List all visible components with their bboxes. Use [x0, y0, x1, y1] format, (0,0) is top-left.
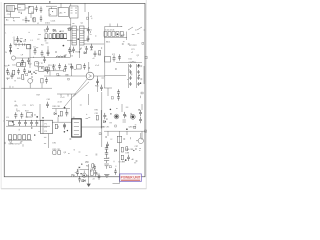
component mark z10_11 [116, 107, 118, 109]
component mark z6_8 [74, 68, 76, 70]
component mark z8_10 [31, 114, 33, 115]
wire under switches [8, 139, 32, 141]
svg-text:T2: T2 [41, 63, 43, 65]
component mark z4_8 [145, 56, 147, 58]
capacitor C504 [96, 79, 99, 85]
capacitor C701 [14, 112, 17, 118]
connector CN1 pins [8, 6, 12, 12]
wire bus y126 [6, 125, 50, 127]
component mark z3_7 [90, 31, 92, 33]
component body d9_1 [138, 64, 140, 66]
component mark z7_0 [131, 74, 133, 75]
svg-text:R91: R91 [95, 110, 99, 112]
switch S1 [9, 135, 12, 140]
component mark z13_1 [75, 176, 77, 178]
component mark z6_4 [68, 78, 70, 80]
svg-text:R2: R2 [24, 41, 26, 43]
component body d7_0 [133, 150, 134, 151]
filter box row1 [17, 63, 20, 67]
component body d4_3 [34, 134, 35, 135]
capacitor CB7 [94, 170, 97, 176]
svg-text:C24 C25: C24 C25 [129, 62, 137, 64]
svg-text:r9: r9 [97, 173, 99, 176]
diagonal wire stub [74, 82, 90, 97]
svg-text:D21: D21 [129, 59, 133, 61]
component mark z13_4 [77, 169, 79, 170]
relay RL1 corner [18, 5, 26, 11]
component mark z6_2 [71, 67, 73, 69]
resistor R310 [99, 51, 101, 55]
component body d6_4 [126, 128, 128, 130]
capacitor C220 [129, 64, 131, 68]
capacitor C705 [24, 120, 27, 126]
component body d8_1 [80, 173, 81, 174]
svg-text:R45: R45 [17, 78, 21, 80]
wire tick y88 [10, 84, 42, 88]
component mark z4_3 [122, 43, 124, 44]
wire y57 mid [30, 57, 70, 59]
transistor QB1 [82, 173, 86, 177]
mark small a [123, 120, 126, 122]
svg-text:R47: R47 [37, 94, 41, 96]
component body d3_1 [117, 33, 119, 35]
svg-text:R81 C81: R81 C81 [53, 106, 61, 108]
capacitor C232 [137, 76, 139, 80]
capacitor C304 [34, 48, 37, 54]
component mark z3_1 [98, 53, 100, 55]
component mark z4_7 [142, 43, 144, 45]
wire y40 stub [14, 37, 21, 45]
component mark z2_7 [46, 42, 49, 44]
component body d7_1 [125, 159, 127, 161]
component mark z1_0 [72, 23, 74, 25]
capacitor CB6 [76, 170, 79, 176]
wire x71 drop to U2 [71, 94, 73, 119]
capacitor C406 [45, 77, 48, 83]
component mark z3_8 [65, 54, 67, 56]
component mark z6_7 [66, 74, 68, 76]
varistor RV1 [9, 121, 14, 125]
component mark z3_2 [83, 32, 85, 33]
svg-text:F3: F3 [7, 117, 9, 119]
component mark z3_13 [64, 55, 66, 57]
transformer T1 primary [49, 9, 57, 17]
bridge BR2 dark [27, 45, 31, 49]
resistor RB1 [121, 147, 123, 152]
component mark z3_9 [79, 49, 81, 51]
component mark z10_9 [135, 124, 137, 126]
capacitor C704 [30, 120, 33, 126]
component body d5_3 [58, 115, 59, 116]
component mark z9_5 [80, 132, 82, 134]
capacitor C404 [46, 67, 49, 73]
page edge bottom [1, 188, 146, 190]
component mark z13_5 [82, 180, 84, 182]
component mark z7_7 [111, 97, 113, 99]
wire y75 to array [105, 75, 126, 77]
component mark z8_3 [26, 117, 28, 118]
diode D203 [112, 32, 115, 37]
switch S2 [13, 135, 16, 140]
component mark z2_11 [44, 29, 46, 30]
page background [0, 0, 149, 198]
svg-text:C91: C91 [95, 113, 99, 115]
capacitor C503 [83, 63, 86, 69]
wire T3 right taps [84, 29, 88, 41]
component mark z12_3 [108, 157, 110, 159]
ic U4 [39, 67, 45, 71]
component body d11_1 [52, 11, 53, 12]
component mark z3_12 [64, 33, 66, 35]
component mark z5_3 [37, 66, 40, 68]
wire y122 stub [52, 117, 72, 122]
transistor QA2 blob [131, 115, 134, 118]
svg-text:IC2: IC2 [112, 54, 115, 56]
filter box row2 [35, 62, 38, 66]
wire ac entry [14, 43, 30, 46]
svg-text:R3: R3 [41, 45, 43, 47]
capacitor C307 [27, 58, 30, 64]
ic U7 [27, 112, 32, 117]
svg-text:F1: F1 [13, 20, 15, 22]
svg-text:d6: d6 [132, 159, 134, 161]
wire corner c [4, 24, 46, 26]
wire y88 L [104, 88, 112, 96]
component mark z6_0 [57, 74, 59, 76]
component body d8_0 [79, 167, 80, 168]
capacitor CA2 [123, 112, 126, 118]
component mark z2_9 [33, 57, 35, 58]
svg-text:R92 C92: R92 C92 [53, 149, 61, 151]
svg-text:P2: P2 [45, 127, 47, 129]
component mark z1_5 [91, 18, 93, 19]
capacitor C001 [35, 6, 38, 12]
capacitor C301 [9, 43, 12, 49]
capacitor CA1 [103, 113, 106, 119]
component mark z0_6 [18, 7, 21, 9]
svg-text:CN1: CN1 [7, 14, 11, 16]
capacitor C002 [40, 7, 43, 13]
component mark z13_6 [72, 175, 74, 177]
component mark z14_2 [122, 161, 124, 163]
svg-text:R98 C98: R98 C98 [126, 149, 134, 151]
component mark z2_10 [22, 64, 24, 67]
component body d5_1 [64, 107, 66, 109]
capacitor C212 [118, 54, 121, 60]
component body d2_0 [41, 67, 42, 68]
transformer T3 winding A [72, 26, 76, 45]
switch S3 [18, 135, 21, 140]
component body d5_0 [67, 130, 68, 131]
resistor R303 [60, 34, 63, 39]
component mark z1_4 [64, 12, 66, 14]
component mark z6_1 [63, 69, 65, 72]
svg-text:Q71: Q71 [17, 111, 21, 113]
diode DB1 [115, 149, 117, 151]
svg-text:c6 r8: c6 r8 [58, 101, 62, 104]
component mark z0_4 [27, 20, 30, 22]
component mark z8_8 [16, 108, 18, 110]
component mark z11_1 [86, 155, 88, 157]
capacitor C105 [87, 27, 90, 33]
svg-text:R21 R22: R21 R22 [129, 45, 137, 47]
component body d6_2 [110, 113, 111, 114]
switch SW1 [128, 27, 137, 30]
page edge right [145, 0, 147, 189]
ground G4 arrow [87, 184, 91, 187]
component mark z7_2 [139, 96, 141, 98]
capacitor CB5 [114, 169, 117, 175]
component body d2_4 [31, 73, 32, 74]
component mark z2_6 [17, 48, 19, 50]
component body d4_1 [12, 121, 14, 123]
component mark z10_6 [123, 139, 125, 140]
component body d5_2 [64, 131, 66, 133]
capacitor C230 [137, 64, 139, 68]
capacitor C311 [72, 47, 75, 53]
wire bus y131 [104, 131, 146, 140]
component mark z14_5 [139, 147, 141, 149]
svg-text:R12: R12 [61, 31, 65, 33]
component body d6_1 [110, 109, 112, 111]
component mark z8_4 [15, 104, 17, 106]
resistor RB2 [121, 155, 123, 160]
transistor QA1 blob [115, 115, 118, 118]
wire x97 drop [97, 76, 99, 92]
wire main vert x104 [104, 44, 106, 88]
svg-text:R41: R41 [4, 65, 8, 67]
svg-text:C42: C42 [36, 63, 40, 65]
transistor QA2 ring [130, 114, 135, 119]
junction dot top [49, 1, 50, 2]
capacitor C231 [137, 70, 139, 74]
component mark z4_2 [137, 33, 139, 35]
wire vert x40a [39, 104, 41, 121]
component mark z10_0 [115, 125, 117, 127]
component body d9_2 [140, 82, 142, 84]
wire U1 down rail [70, 18, 72, 58]
component mark z14_3 [134, 162, 136, 164]
component mark z2_4 [45, 40, 47, 41]
electrolytic CB3 [104, 157, 109, 169]
component mark z7_6 [140, 79, 142, 80]
component mark z10_5 [126, 106, 129, 108]
capacitor C222 [129, 76, 131, 80]
capacitor CB10 [78, 176, 80, 182]
capacitor CA4 [139, 117, 142, 123]
transistor Q7 [28, 78, 33, 83]
wire x485 drop [48, 134, 50, 148]
component mark z2_5 [22, 61, 24, 63]
component mark z9_4 [80, 104, 82, 106]
component mark z9_7 [57, 126, 59, 127]
capacitor C303 [21, 58, 24, 64]
capacitor CB2 [105, 150, 108, 156]
wire corner b [11, 12, 32, 19]
component body d1_4 [59, 31, 60, 32]
component mark z2_13 [10, 44, 12, 47]
component body d6_0 [106, 119, 107, 120]
wire x102 long drop [101, 92, 103, 147]
component mark z12_0 [115, 165, 116, 167]
component mark z9_1 [88, 116, 90, 118]
svg-text:q8: q8 [85, 162, 87, 164]
svg-text:k1: k1 [15, 101, 17, 103]
junction dot mid [79, 51, 80, 52]
diode D201 [104, 32, 107, 37]
capacitor CA5 [106, 142, 109, 148]
capacitor C315 [85, 46, 87, 52]
svg-text:r2 c3: r2 c3 [95, 64, 99, 67]
svg-text:C71: C71 [23, 105, 27, 107]
thermistor TH1 [11, 56, 15, 60]
svg-text:P1: P1 [45, 124, 47, 126]
wire bus y94 [57, 94, 76, 97]
resistor R106 [61, 34, 63, 38]
component mark z11_0 [68, 153, 70, 155]
svg-text:R11: R11 [54, 31, 57, 33]
diode D101 [53, 29, 55, 31]
svg-text:ln: ln [50, 14, 52, 16]
capacitor C405 [11, 73, 14, 79]
capacitor C403 [23, 68, 26, 74]
component mark z8_1 [44, 136, 47, 138]
wire corner d [4, 17, 20, 19]
capacitor CB4 [127, 155, 130, 161]
capacitor C508 [52, 64, 55, 70]
connector pin ticks [23, 43, 25, 45]
component body d0_3 [25, 39, 26, 40]
svg-text:D5: D5 [71, 56, 73, 58]
capacitor CB8 [98, 174, 101, 180]
resistor R103 [49, 34, 51, 38]
component mark z5_11 [35, 70, 37, 72]
wire Q1 right [94, 75, 105, 77]
wire vertical x30 [29, 45, 31, 69]
component mark z0_1 [33, 18, 35, 20]
svg-text:L1: L1 [31, 40, 33, 42]
svg-text:C2: C2 [37, 39, 39, 41]
capacitor C221 [129, 70, 131, 74]
component mark z5_6 [12, 86, 14, 88]
component mark z6_6 [88, 68, 90, 69]
resistor R403 [41, 78, 43, 83]
wire corner a [15, 8, 36, 9]
component mark z8_5 [44, 143, 46, 145]
resistor RB4 [126, 147, 128, 151]
svg-text:POWER UNIT: POWER UNIT [121, 175, 141, 179]
transformer T1 secondary [59, 8, 69, 17]
component mark z0_5 [31, 11, 34, 13]
svg-text:Z2: Z2 [93, 178, 95, 180]
component mark z3_4 [69, 28, 71, 30]
optocoupler U2 pins [74, 123, 79, 135]
component mark z1_3 [57, 7, 59, 9]
svg-text:c2: c2 [131, 52, 133, 54]
capacitor C101 [46, 26, 49, 32]
component mark z11_2 [79, 151, 81, 153]
capacitor C211 [113, 55, 116, 61]
resistor R001 [33, 18, 35, 22]
capacitor C507 [70, 64, 73, 70]
component body d9_0 [138, 75, 139, 76]
component mark z2_1 [34, 49, 36, 50]
ic UA1 [117, 136, 122, 142]
svg-text:C101: C101 [51, 20, 57, 22]
svg-text:D41: D41 [20, 64, 24, 66]
component body d0_1 [10, 50, 11, 51]
component mark z12_2 [113, 161, 115, 163]
switch SW2 [137, 27, 145, 30]
component mark z9_3 [99, 133, 101, 135]
component mark z10_1 [130, 113, 132, 114]
ic U0 corner [29, 7, 34, 14]
svg-text:D91: D91 [53, 143, 57, 145]
component mark z13_3 [75, 172, 77, 174]
inductor L2 [56, 56, 65, 57]
component mark z4_1 [128, 44, 130, 45]
component mark z1_1 [87, 17, 89, 19]
capacitor C703 [18, 120, 21, 126]
component mark z3_6 [77, 29, 79, 30]
component mark z4_6 [123, 41, 125, 43]
component mark z12_1 [109, 166, 111, 168]
wire x88 lower rail [87, 94, 89, 105]
component mark z14_0 [136, 160, 138, 161]
component mark z9_0 [86, 118, 89, 120]
capacitor C501 [58, 63, 61, 69]
diode DB2 [83, 180, 85, 182]
component mark z5_7 [32, 79, 33, 81]
component body d0_2 [10, 50, 11, 51]
component mark z8_11 [4, 142, 6, 144]
component mark z11_3 [96, 154, 98, 155]
capacitor CB9 [94, 164, 96, 170]
svg-text:Q2: Q2 [137, 55, 140, 57]
component mark z0_3 [12, 18, 14, 20]
component mark z2_0 [38, 34, 41, 36]
component mark z10_4 [109, 122, 112, 124]
diode D401 [29, 71, 31, 73]
line filter LF1 [21, 63, 26, 67]
IC U1 pin marks [71, 8, 78, 13]
svg-text:C7: C7 [85, 47, 87, 49]
component mark z4_0 [132, 34, 135, 36]
optocoupler U2 box [72, 119, 82, 137]
component mark z5_5 [7, 78, 9, 80]
svg-text:r7 c9: r7 c9 [60, 97, 64, 99]
component body d10_0 [21, 13, 22, 14]
svg-text:R1: R1 [45, 32, 47, 34]
component mark z5_1 [8, 73, 10, 75]
wire x101 upper [100, 110, 102, 128]
capacitor C309 [16, 36, 18, 42]
svg-text:C21: C21 [131, 49, 135, 51]
component body d2_3 [35, 73, 36, 74]
diode D202 [108, 32, 111, 37]
wire T3 left taps [67, 29, 72, 41]
component mark z7_5 [115, 69, 117, 70]
component body d8_2 [81, 163, 82, 164]
small box bc [90, 170, 93, 175]
capacitor C310 [87, 36, 90, 42]
capacitor C401 [6, 68, 9, 74]
component mark z9_8 [69, 139, 71, 140]
capacitor C223 [129, 82, 131, 86]
transistor QA1 ring [114, 114, 119, 119]
component mark z9_9 [86, 113, 87, 115]
component mark z10_10 [130, 137, 132, 139]
